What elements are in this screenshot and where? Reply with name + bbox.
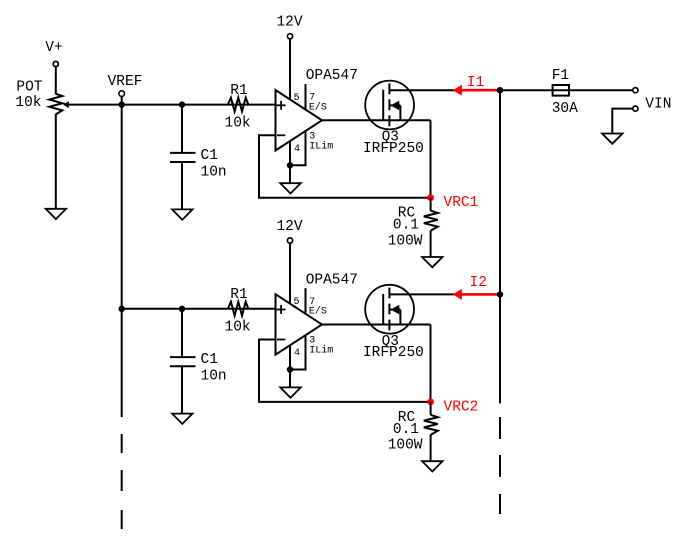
svg-text:IRFP250: IRFP250 xyxy=(363,345,424,361)
transistor Q3 IRFP250 xyxy=(363,81,424,157)
svg-text:E/S: E/S xyxy=(309,101,327,113)
capacitor C1 10n xyxy=(170,105,227,210)
svg-text:ILim: ILim xyxy=(309,141,333,153)
svg-text:10n: 10n xyxy=(201,369,227,385)
ground op-amp xyxy=(280,183,300,193)
svg-text:IRFP250: IRFP250 xyxy=(363,141,424,157)
resistor RC 0.1 100W lower xyxy=(388,402,438,462)
svg-text:4: 4 xyxy=(294,348,300,359)
ground VIN xyxy=(602,134,622,144)
svg-text:I2: I2 xyxy=(470,275,487,291)
wire left rail down xyxy=(121,105,123,417)
pin 3 ILim stub xyxy=(290,131,333,165)
wire feedback from inverting input to VRC1 xyxy=(259,135,431,197)
current arrow I2 xyxy=(453,275,500,300)
svg-text:0.1: 0.1 xyxy=(393,422,419,438)
svg-text:10n: 10n xyxy=(201,164,227,180)
svg-text:10k: 10k xyxy=(225,116,251,132)
node 12V supply lower xyxy=(276,219,302,304)
svg-text:POT: POT xyxy=(16,80,42,96)
wire VIN return to ground xyxy=(612,109,633,134)
wire POT to ground xyxy=(55,114,57,209)
node 12V supply xyxy=(276,15,302,100)
svg-text:100W: 100W xyxy=(388,438,423,454)
wire right rail dashed xyxy=(499,417,501,514)
wire V+ to POT xyxy=(55,67,57,94)
node drain junction I2 xyxy=(497,291,503,297)
node drain junction I1 xyxy=(497,87,503,93)
ground C1 lower xyxy=(172,414,192,424)
node pin3/pin4 junction lower xyxy=(287,366,293,372)
svg-text:10k: 10k xyxy=(15,95,41,111)
svg-text:ILim: ILim xyxy=(309,345,333,357)
ground op-amp lower xyxy=(280,387,300,397)
svg-text:5: 5 xyxy=(294,93,300,104)
wire right rail xyxy=(499,90,501,403)
svg-text:VRC1: VRC1 xyxy=(444,195,479,211)
ground POT xyxy=(46,209,66,219)
svg-text:OPA547: OPA547 xyxy=(306,68,358,84)
svg-text:C1: C1 xyxy=(201,148,218,164)
wire op-amp output to gate/source xyxy=(322,119,431,121)
svg-text:F1: F1 xyxy=(552,68,569,84)
ground RC lower xyxy=(422,461,442,471)
resistor R1 10k lower xyxy=(225,287,251,336)
node pin3/pin4 junction xyxy=(287,162,293,168)
svg-text:30A: 30A xyxy=(552,101,578,117)
svg-text:OPA547: OPA547 xyxy=(306,272,358,288)
resistor R1 10k xyxy=(225,83,251,132)
wire source drop to VRC1 xyxy=(430,120,432,197)
svg-text:V+: V+ xyxy=(45,40,62,56)
node VRC2 xyxy=(427,399,478,416)
wire junction to ground xyxy=(289,165,291,183)
wire feedback from inverting input to VRC2 xyxy=(259,340,431,402)
node C1 junction lower xyxy=(179,306,185,312)
svg-text:VREF: VREF xyxy=(108,74,143,90)
wire main rail lower xyxy=(122,308,276,310)
pin 4 stub xyxy=(290,141,300,165)
resistor RC 0.1 100W xyxy=(388,198,438,258)
potentiometer POT 10k xyxy=(15,80,62,115)
node C1 junction xyxy=(179,101,185,107)
svg-text:4: 4 xyxy=(294,144,300,155)
node rail junction lower xyxy=(119,306,125,312)
wire source drop to VRC2 xyxy=(430,325,432,402)
current arrow I1 xyxy=(453,75,500,96)
capacitor C1 10n lower xyxy=(170,309,227,414)
op-amp U2 OPA547 xyxy=(276,272,358,354)
svg-text:C1: C1 xyxy=(201,352,218,368)
svg-text:VRC2: VRC2 xyxy=(444,399,479,415)
ground RC xyxy=(422,257,442,267)
node VREF terminal xyxy=(108,74,143,108)
wire drain to right rail xyxy=(389,89,500,91)
wire left rail dashed xyxy=(121,434,123,529)
svg-text:R1: R1 xyxy=(230,287,247,303)
wire main rail VREF xyxy=(68,104,276,106)
svg-text:R1: R1 xyxy=(230,83,247,99)
svg-text:E/S: E/S xyxy=(309,306,327,318)
op-amp U1 OPA547 xyxy=(276,68,358,150)
wire drain to right rail lower xyxy=(389,293,500,295)
svg-text:0.1: 0.1 xyxy=(393,218,419,234)
wire op-amp output to gate/source lower xyxy=(322,324,431,326)
svg-text:VIN: VIN xyxy=(645,97,671,113)
pin 7 E/S stub lower xyxy=(306,288,327,317)
svg-text:I1: I1 xyxy=(467,75,484,91)
svg-text:100W: 100W xyxy=(388,233,423,249)
node V+ terminal xyxy=(45,40,62,67)
transistor Q4 IRFP250 xyxy=(363,285,424,361)
svg-text:12V: 12V xyxy=(276,219,302,235)
node VRC1 xyxy=(427,194,478,211)
POT wiper arrowhead xyxy=(63,101,69,108)
pin 7 E/S stub xyxy=(306,84,327,113)
wire junction to ground lower xyxy=(289,370,291,388)
fuse F1 30A xyxy=(552,68,578,117)
ground C1 xyxy=(172,209,192,219)
pin 4 stub lower xyxy=(290,345,300,369)
svg-text:12V: 12V xyxy=(276,15,302,31)
svg-text:10k: 10k xyxy=(225,320,251,336)
pin 3 ILim stub lower xyxy=(290,335,333,369)
wire to fuse and VIN xyxy=(500,89,633,91)
node VIN terminal xyxy=(633,88,672,113)
svg-text:5: 5 xyxy=(294,297,300,308)
